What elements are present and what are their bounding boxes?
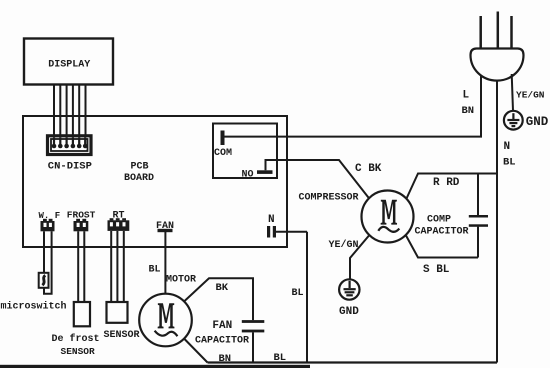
svg-text:SENSOR: SENSOR — [61, 346, 96, 357]
wire W.F left to microswitch — [43, 231, 45, 273]
svg-text:COM: COM — [214, 148, 232, 159]
wire R to N line — [407, 174, 497, 199]
capacitor FAN CAPACITOR — [242, 320, 264, 362]
wire BL vertical — [306, 232, 308, 363]
sensor RT1 box — [107, 302, 128, 323]
svg-text:BL: BL — [274, 352, 287, 364]
ground GND compressor — [339, 279, 359, 299]
bottom border bar — [0, 365, 310, 368]
svg-text:FAN: FAN — [156, 221, 174, 232]
connector W.F — [41, 219, 55, 232]
svg-text:C BK: C BK — [355, 163, 382, 175]
svg-text:BOARD: BOARD — [124, 173, 154, 184]
wire bottom BN/BL run — [208, 361, 498, 363]
connector RT — [108, 218, 130, 231]
wire N from plug down to bottom — [496, 81, 498, 363]
connector N terminal — [267, 226, 307, 238]
svg-text:COMP: COMP — [427, 215, 451, 226]
svg-text:N: N — [504, 141, 511, 153]
svg-text:BN: BN — [219, 353, 232, 365]
svg-text:BL: BL — [149, 265, 161, 276]
svg-text:YE/GN: YE/GN — [329, 239, 359, 251]
svg-text:COMPRESSOR: COMPRESSOR — [299, 193, 359, 204]
svg-text:MOTOR: MOTOR — [166, 275, 196, 286]
svg-text:BL: BL — [292, 288, 304, 299]
svg-text:N: N — [268, 214, 275, 226]
svg-text:FROST: FROST — [67, 210, 96, 221]
ground GND top-right — [504, 111, 523, 130]
power plug P1 — [471, 49, 524, 81]
svg-text:CAPACITOR: CAPACITOR — [415, 227, 469, 238]
sine wave fan — [155, 331, 178, 337]
wire S to capacitor — [406, 236, 478, 258]
svg-text:BL: BL — [503, 157, 516, 169]
wire microswitch loop — [44, 231, 52, 293]
svg-text:NO: NO — [242, 170, 254, 181]
plug prong middle — [497, 12, 500, 49]
svg-text:YE/GN: YE/GN — [516, 90, 545, 101]
motor M letter compressor — [381, 200, 397, 225]
svg-text:BK: BK — [216, 282, 229, 294]
display box U1 — [24, 39, 113, 85]
svg-text:FAN: FAN — [212, 320, 232, 332]
plug prong left — [479, 16, 482, 49]
wire BN motor to bottom — [184, 339, 208, 363]
microswitch S1 — [39, 273, 49, 288]
PCB board outline — [23, 116, 287, 247]
svg-text:De frost: De frost — [52, 333, 100, 345]
wires RT to sensor — [111, 231, 124, 302]
plug prong right — [510, 16, 513, 49]
relay COM terminal — [221, 131, 225, 146]
svg-text:GND: GND — [526, 115, 549, 129]
wire earth plug to GND — [512, 74, 513, 111]
defrost sensor RT2 box — [74, 302, 90, 326]
wires FROST to defrost sensor — [78, 231, 84, 302]
svg-text:L: L — [463, 90, 470, 102]
wire BK to fan capacitor — [184, 278, 253, 320]
svg-text:CN-DISP: CN-DISP — [48, 161, 92, 173]
compressor motor M1 — [362, 191, 414, 243]
connector FROST — [74, 219, 89, 232]
wire fan to motor — [164, 232, 166, 294]
capacitor COMP CAPACITOR — [469, 174, 488, 258]
svg-text:CAPACITOR: CAPACITOR — [195, 336, 249, 347]
svg-text:DISPLAY: DISPLAY — [48, 60, 90, 71]
svg-text:S BL: S BL — [423, 264, 450, 276]
svg-text:microswitch: microswitch — [1, 301, 67, 313]
wire display ribbon (6 wires) — [54, 85, 86, 148]
motor M letter fan — [158, 303, 175, 328]
svg-text:SENSOR: SENSOR — [104, 330, 140, 341]
connector FAN terminal — [158, 229, 173, 232]
svg-text:BN: BN — [462, 105, 475, 117]
svg-text:RT: RT — [113, 211, 125, 222]
wire YE/GN to ground — [350, 236, 369, 280]
sine wave compressor — [378, 227, 399, 232]
svg-text:R RD: R RD — [433, 177, 460, 189]
relay NO terminal — [257, 170, 273, 174]
svg-text:W. F: W. F — [39, 211, 61, 221]
connector CN-DISP — [48, 136, 92, 155]
relay K1 box — [213, 124, 277, 179]
wire L: COM to plug live — [224, 74, 481, 137]
svg-text:PCB: PCB — [131, 162, 149, 173]
fan motor M2 — [139, 294, 192, 347]
wire NO to compressor C — [266, 160, 370, 199]
svg-text:GND: GND — [339, 306, 359, 318]
